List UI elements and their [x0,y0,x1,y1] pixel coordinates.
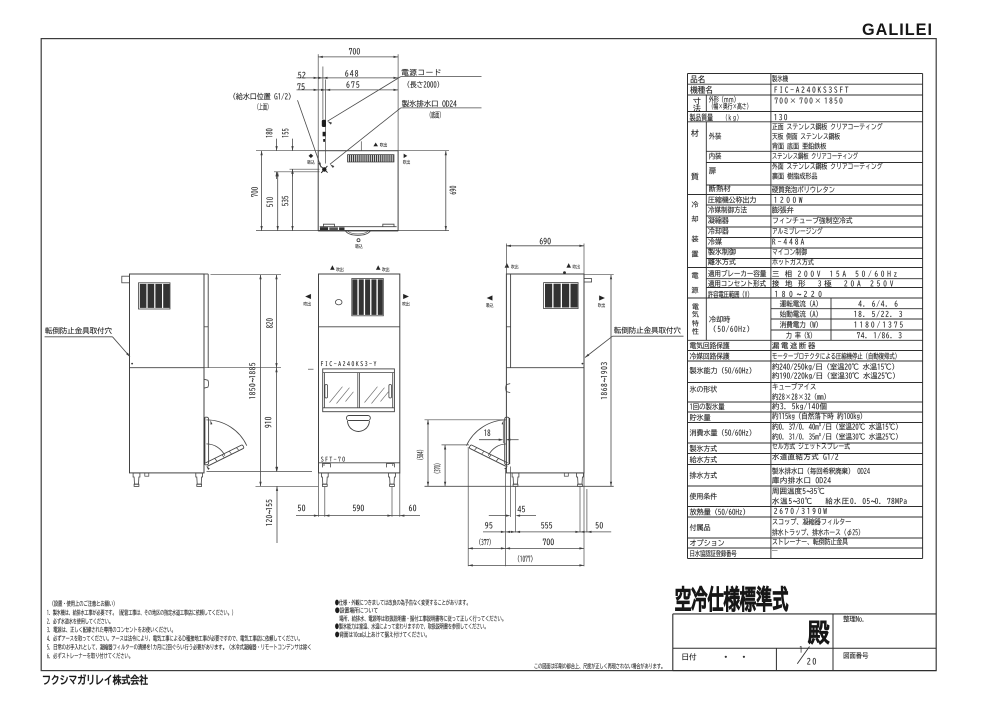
front window assembly [323,369,395,412]
dim 120~155 [276,486,278,543]
right view front panel (left edge) [510,274,512,368]
leg [577,473,584,484]
left view open door leaf [207,448,243,466]
power cord label [401,76,482,78]
top view body outline [318,151,398,231]
door top/tip extension lines [425,419,505,421]
right side view body [506,274,584,473]
front view body [319,274,400,473]
svg-text:GALILEI: GALILEI [862,21,933,39]
dim 690 top [505,244,507,275]
right view condenser grille [544,283,579,309]
leg [512,473,519,484]
right view top bolt [563,271,566,274]
dim 180 vertical [276,139,278,151]
top view front bulge arc [345,231,370,235]
dim 18 detail [479,439,502,441]
left view drain stub [145,473,149,476]
right view door swing arc [466,420,506,446]
tipover bracket label right [613,335,684,337]
left view condenser grille [139,283,171,309]
front view grille [352,279,384,316]
right bottom extension lines [467,447,469,566]
front small tick left [308,368,314,370]
top view center mark line [360,141,362,150]
drain fitting symbol [322,167,326,171]
right view air arrows sides [487,296,493,301]
dim 535 vertical [292,169,294,230]
cord and drain extension verticals [322,67,324,120]
top view suction marker below [357,239,360,242]
floor line [425,485,614,487]
title block [673,613,936,615]
dim 510 vertical [277,172,279,231]
right view air arrows top [505,263,509,267]
right view rear pipe [584,279,592,282]
left view rear pipe [122,276,130,283]
spec table grid [688,73,923,75]
leg [196,473,203,484]
tipover bracket label left [45,336,113,338]
window hatching [330,387,343,403]
dim 52 / 648 [297,77,323,79]
right view door handle [506,384,511,393]
leg [321,473,328,484]
dim 75 / 675 [297,89,326,91]
front kickplate line and brackets [319,462,400,464]
top view bottom dark hinge strips [320,227,328,230]
top view air arrows [374,143,378,147]
dim (584) [427,420,429,487]
front air arrows top [330,265,334,269]
leg [133,473,140,484]
dim 690 vertical right [398,150,449,152]
ice drain port label [401,107,482,109]
dim (370) [444,445,446,486]
leg [389,473,396,484]
dim 45 [489,515,508,517]
top dim 700 [318,56,398,58]
dim 700 vertical left [261,151,263,231]
right view drain stub [564,473,568,476]
front air arrows sides [305,294,311,299]
left side view body [130,274,205,473]
dim 1868~1903 [584,274,614,276]
window pane handles [325,385,328,399]
left view door slab edge + swing end arrows [204,418,206,464]
front view switch oval [335,300,342,305]
dim 820 [276,275,278,368]
front chute bump [347,416,371,421]
left view open door slab [204,417,209,465]
left view door handle [204,379,209,388]
right view open door slab [505,417,510,465]
right view open door leaf [470,448,506,466]
dim 95/555/50 row [483,531,611,533]
left view door swing arc [206,420,246,446]
dim 1850~1885 [260,275,262,487]
left view front panel (right edge) [207,274,209,368]
power cord connector symbol [322,120,326,127]
right view door slab edge + swing end arrows [508,418,510,464]
dim (1077) row [468,564,584,566]
front bottom dims 50/590/60 [318,473,320,517]
top view condenser grille strip [348,155,395,162]
dim (377)/700 row [468,547,584,549]
left view dim extension lines [211,274,282,276]
dim 910 [276,368,278,472]
left ref lines 155/180 [290,168,320,170]
water supply position label [298,100,322,167]
top view bottom tabs [323,224,334,227]
dim 155 vertical [292,139,294,151]
title block texts [725,656,727,658]
